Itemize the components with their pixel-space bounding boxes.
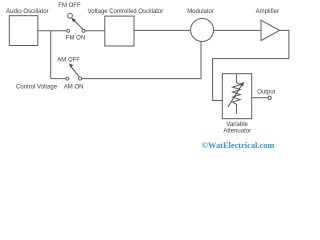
svg-text:Control Voltage: Control Voltage — [16, 85, 58, 91]
node junction to AM path — [50, 31, 52, 79]
svg-text:Attenuator: Attenuator — [223, 128, 251, 134]
svg-text:Variable: Variable — [226, 122, 248, 128]
svg-text:AM OFF: AM OFF — [57, 57, 80, 63]
block Modulator (circle) — [191, 19, 214, 42]
svg-text:AM ON: AM ON — [64, 85, 84, 91]
switch S1 (FM) OFF contact — [68, 13, 73, 18]
svg-text:Output: Output — [257, 89, 275, 95]
switch S2 (AM) right terminal — [79, 77, 82, 80]
wire modulator to amplifier — [214, 29, 261, 31]
block Variable Attenuator — [222, 74, 251, 119]
switch S1 (FM) left terminal — [67, 29, 70, 32]
resistor R1 (variable) inside attenuator — [233, 74, 241, 114]
switch S2 (AM) left terminal — [66, 77, 69, 80]
wire attenuator to output terminal — [252, 97, 268, 99]
switch S1 (FM) right terminal — [82, 29, 85, 32]
wire AM switch to modulator bottom — [82, 42, 202, 79]
arrow across resistor (variable symbol) — [228, 82, 244, 107]
amplifier A1 (triangle) — [261, 20, 280, 40]
svg-text:©WatElectrical.com: ©WatElectrical.com — [202, 141, 275, 150]
svg-text:Amplifier: Amplifier — [256, 9, 279, 15]
svg-text:Modulator: Modulator — [187, 9, 214, 15]
block Voltage Controlled Oscillator — [105, 16, 134, 46]
wire amplifier output down to attenuator — [213, 30, 289, 100]
svg-text:FM ON: FM ON — [66, 35, 85, 41]
wire FM switch to VCO — [85, 30, 105, 32]
switch S2 (AM) input wire from junction — [51, 78, 66, 80]
block Audio Oscillator — [9, 16, 38, 46]
svg-text:FM OFF: FM OFF — [58, 3, 81, 9]
wire VCO to modulator — [134, 29, 191, 31]
wire audio oscillator output to FM switch — [38, 30, 67, 32]
switch S1 (FM) arm with arrow — [71, 18, 83, 30]
label Variable Attenuator — [223, 122, 251, 134]
svg-text:Audio Oscillator: Audio Oscillator — [6, 8, 49, 15]
node Output terminal — [268, 96, 271, 99]
switch S2 (AM) arm with arrow — [69, 63, 80, 77]
svg-text:Voltage Controlled Oscillator: Voltage Controlled Oscillator — [88, 9, 164, 15]
